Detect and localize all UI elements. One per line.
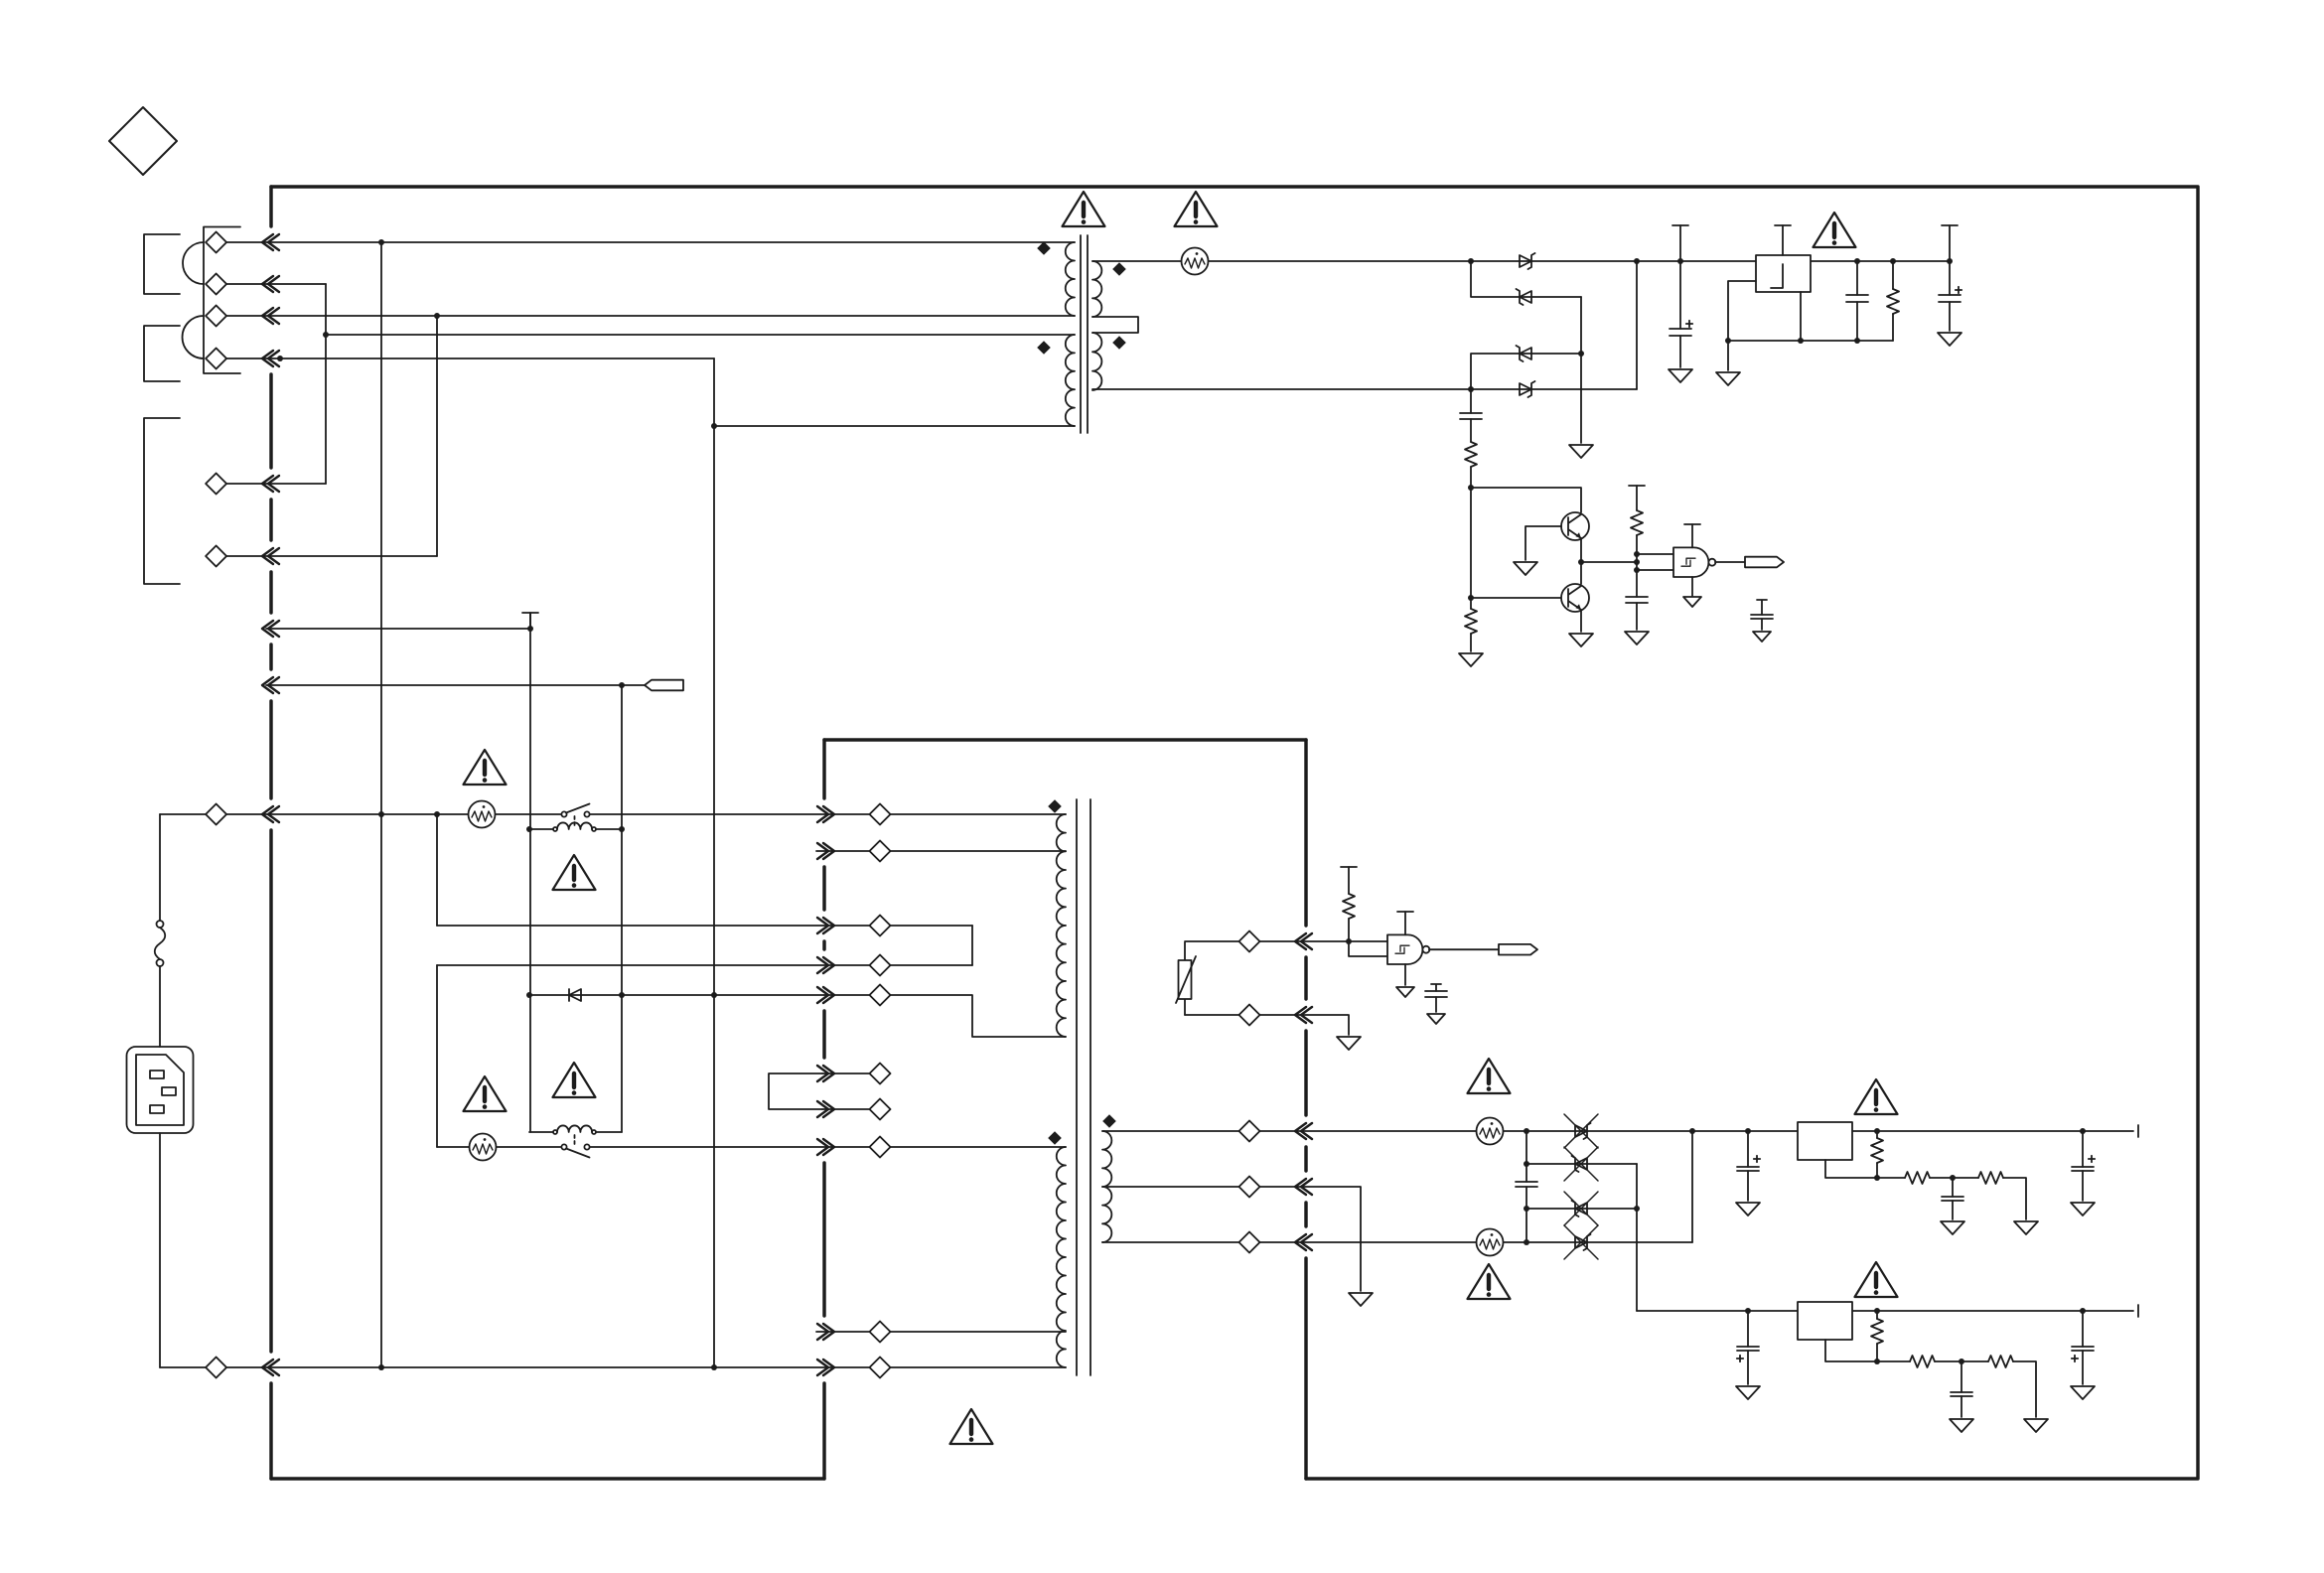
resistor R33 — [1978, 1172, 2003, 1184]
connector CN bracket 1 — [144, 234, 180, 294]
pin 5 — [206, 474, 226, 495]
connector CN bracket 2 — [144, 326, 180, 381]
pin sec 1139 — [1239, 1121, 1260, 1142]
phase dot T1 S2 — [1112, 336, 1126, 350]
warning triangle regulator — [1814, 213, 1856, 247]
ground — [1459, 653, 1483, 666]
ground — [1950, 1419, 1973, 1432]
resistor R36 — [1988, 1356, 2013, 1367]
warning triangle RY2 — [553, 1063, 596, 1097]
IC1 top pin tick — [1782, 225, 1784, 255]
thermistor TH5 — [1477, 1229, 1504, 1256]
wire long vertical N bus — [380, 242, 382, 1367]
wire diode row 2 — [1526, 1163, 1637, 1165]
cap C35 — [1747, 1311, 1749, 1347]
wire diode4 to top rail — [1691, 1131, 1693, 1242]
wire Q2 base row — [1471, 597, 1562, 599]
wire Q1 emitter to Q2 collector — [1580, 538, 1582, 584]
wire row8 — [266, 684, 645, 686]
chevron row1 — [262, 234, 279, 250]
zener rectifier D13 — [1517, 346, 1532, 361]
jumper loop outside box — [769, 1073, 822, 1109]
chevron live row — [262, 806, 279, 822]
IC1 gnd pin left — [1728, 281, 1756, 370]
ground — [1669, 369, 1692, 382]
wire AC inlet neutral drop — [159, 1133, 161, 1367]
gate input B jog — [1349, 941, 1387, 956]
crossed diode DX2 — [1572, 1156, 1588, 1172]
chevron row7 — [262, 621, 279, 637]
pin 4 — [206, 349, 226, 369]
pull-up resistor R13 — [1636, 486, 1638, 510]
wire row 1002 inside box — [824, 995, 1066, 1037]
transformer T2 secondary winding — [1102, 1131, 1111, 1242]
wire stack right vertical — [1636, 1164, 1638, 1311]
jumper arc pins 3-4 — [183, 316, 204, 358]
isolation boundary outer box (thick) — [271, 187, 2198, 1479]
junction dots bottom right — [1524, 1128, 1529, 1134]
chevron row6 — [262, 548, 279, 564]
wire row2 pin2 — [226, 283, 326, 285]
phase dot T2 S — [1102, 1114, 1116, 1128]
power tick unreg rail — [1679, 225, 1681, 261]
pin box tap1 — [870, 841, 891, 862]
resistor R14 — [1892, 261, 1894, 289]
wire vertical relay1 left — [529, 613, 531, 1132]
wire D12 row — [1471, 261, 1581, 297]
chevron box row 972 — [817, 957, 834, 973]
wire diode row 3 — [1526, 1208, 1637, 1210]
wire T2 secondary mid tap — [1102, 1187, 1361, 1291]
wire row6 pin6 — [226, 555, 437, 557]
gate input stubs — [1637, 554, 1673, 570]
wire tap row T2 primary1 — [816, 850, 1066, 852]
chevron box neutral — [817, 1359, 834, 1375]
pin 6 — [206, 546, 226, 567]
transformer T1 primary winding 2 — [1066, 335, 1075, 426]
warning triangle top 2 — [1175, 192, 1218, 226]
zener rectifier D14 — [1520, 381, 1535, 397]
end bar lower rail — [2137, 1305, 2139, 1317]
nand gate U2 — [1673, 547, 1715, 577]
snubber chain cap C12 — [1470, 389, 1472, 413]
chevron sec row 1251 — [1295, 1234, 1312, 1250]
warning triangle bottom center — [950, 1409, 993, 1444]
ground — [1938, 333, 1961, 346]
IC2 bottom pin — [1825, 1160, 1877, 1178]
wire T2 secondary bottom row — [1102, 1241, 1692, 1243]
warning triangle IC3 — [1855, 1262, 1898, 1297]
pin 2 — [206, 274, 226, 295]
wire loop rows to pins — [822, 1073, 884, 1109]
wire row into box lower — [437, 964, 972, 966]
transformer T1 secondary winding 2 — [1092, 333, 1101, 390]
wire row into box upper — [437, 925, 972, 927]
thermistor TH2 — [470, 1134, 497, 1161]
wire row4 pin4 — [226, 357, 714, 359]
wire node to gate — [1581, 561, 1637, 563]
sheet logo diamond — [109, 107, 177, 175]
zener rectifier D11 — [1520, 253, 1535, 269]
regulator IC3 — [1798, 1302, 1852, 1340]
wire lower rail — [1637, 1310, 2133, 1312]
cap C36 — [1961, 1361, 1962, 1392]
net flag U1 out — [1499, 944, 1537, 955]
zener rectifier D12 — [1517, 289, 1532, 305]
IC1 bottom pin — [1800, 292, 1802, 341]
U2 output wire — [1715, 561, 1745, 563]
feedback resistor R34 — [1876, 1311, 1878, 1319]
switch S1 — [561, 804, 589, 817]
wire D13 row — [1471, 354, 1581, 389]
wire switched live row2 — [437, 1146, 1066, 1148]
transformer T1 secondary jog — [1092, 317, 1138, 333]
phase dot T2 P2 — [1048, 1131, 1062, 1145]
transformer T2 primary winding 2 — [1057, 1147, 1066, 1367]
regulator IC2 — [1798, 1122, 1852, 1160]
wire row5 pin5 — [226, 483, 326, 485]
chevron sec row 948 — [1295, 933, 1312, 949]
U2 vcc pin — [1691, 524, 1693, 547]
switch S2 — [561, 1144, 589, 1157]
connector body line — [204, 227, 240, 374]
cap C31 — [1516, 1182, 1537, 1187]
warning triangle TH1 — [464, 750, 507, 785]
connector CN bracket 3 — [144, 418, 180, 584]
wire AC inlet live drop — [159, 814, 161, 1047]
chevron box switched live — [817, 1139, 834, 1155]
wire AC live row — [160, 813, 1066, 815]
inner primary box right edge segments — [1304, 740, 1307, 1479]
wire to ground from D12/D13 — [1580, 354, 1582, 443]
pin box tap2 — [870, 1322, 891, 1343]
ground — [1569, 445, 1593, 458]
wire T1 secondary bottom row — [1092, 388, 1637, 390]
wire vertical live branch upper — [436, 814, 438, 926]
ground — [2024, 1419, 2048, 1432]
fuse F1 — [157, 921, 164, 928]
phase dot T1 P1 — [1037, 241, 1051, 255]
phase dot T2 P1 — [1048, 799, 1062, 813]
warning triangle IC2 — [1855, 1079, 1898, 1114]
varistor VR1 — [1184, 942, 1186, 1015]
thermistor TH1 — [469, 801, 496, 828]
chevron row8 — [262, 677, 279, 693]
wire T2 secondary top row — [1102, 1130, 2133, 1132]
output cap C16 — [1949, 225, 1951, 261]
chevron box row 1002 — [817, 987, 834, 1003]
transformer T1 secondary winding 1 — [1092, 261, 1101, 317]
wire row T1 primary2 bottom — [714, 425, 1075, 427]
ground — [2071, 1203, 2095, 1215]
end bar top rail — [2137, 1125, 2139, 1137]
wire tap row T2 primary2 — [816, 1331, 1066, 1333]
IC1 adj row — [1728, 340, 1893, 342]
ground — [1337, 1037, 1361, 1050]
wire relay diode row — [529, 994, 824, 996]
inner primary box left edge segments — [822, 740, 825, 1479]
U1 gnd pin — [1404, 964, 1406, 985]
pin sec 1022 — [1239, 1005, 1260, 1026]
net flag U2 out — [1745, 557, 1784, 568]
wire vertical live branch lower — [436, 965, 438, 1147]
wire vertical pin2-pin5 — [325, 284, 327, 484]
U1 output wire — [1429, 948, 1499, 950]
ground — [1427, 1014, 1445, 1024]
regulator IC1 — [1756, 255, 1811, 292]
chevron box loop a — [817, 1066, 834, 1081]
crossed diode DX3 — [1572, 1201, 1588, 1216]
chevron neutral row — [262, 1359, 279, 1375]
cap C32 — [1747, 1131, 1749, 1167]
ground — [1941, 1221, 1964, 1234]
wire T1 secondary top row — [1092, 260, 1950, 262]
jumper arc pins 1-2 — [183, 242, 204, 284]
bypass cap C21 — [1431, 984, 1441, 991]
pin box loop b — [870, 1099, 891, 1120]
chevron sec row 1139 — [1295, 1123, 1312, 1139]
diode D1 relay damper — [569, 989, 581, 1001]
pin box row 972 — [870, 955, 891, 976]
isolation boundary left edge segments — [269, 187, 272, 1479]
pull-up resistor R21 — [1348, 867, 1350, 894]
U2 gnd pin — [1691, 577, 1693, 596]
cap C15 — [1856, 261, 1858, 295]
resistor R12 — [1470, 598, 1472, 609]
wire Q1 base to ground — [1525, 526, 1561, 560]
warning triangle RY1 — [553, 855, 596, 890]
chevron box loop b — [817, 1101, 834, 1117]
cap C34 — [2082, 1131, 2084, 1167]
warning triangle TH2 — [464, 1076, 507, 1111]
wire row3 pin3 to T1 primary bottom — [226, 315, 1075, 317]
transistor Q2 — [1561, 584, 1589, 612]
chevron sec row 1195 — [1295, 1179, 1312, 1195]
ground — [2071, 1386, 2095, 1399]
thermistor TH4 — [1477, 1118, 1504, 1145]
chevron sec row 1022 — [1295, 1007, 1312, 1023]
junction dots top right — [1468, 258, 1474, 264]
wire Q1 collector branch — [1471, 488, 1581, 512]
phase dot T1 P2 — [1037, 341, 1051, 355]
pin box loop a — [870, 1064, 891, 1084]
feedback resistor R31 — [1876, 1131, 1878, 1138]
resistor R35 — [1877, 1360, 1910, 1362]
cap C33 — [1952, 1178, 1954, 1197]
wire vertical relay1 right — [621, 685, 623, 1132]
net flag row8 — [645, 680, 683, 691]
ground — [1736, 1203, 1760, 1215]
wire row T1 primary2 top — [326, 334, 1075, 336]
transformer T2 core — [1077, 799, 1090, 1375]
warning triangle TH5 — [1468, 1264, 1511, 1299]
pin sec 1251 — [1239, 1232, 1260, 1253]
resistor R32 — [1877, 1177, 1905, 1179]
pin 1 — [206, 232, 226, 253]
phase dot T1 S1 — [1112, 262, 1126, 276]
thermistor TH3 — [1182, 248, 1209, 275]
ground — [1753, 632, 1771, 642]
chevron row3 — [262, 308, 279, 324]
pin box neutral — [870, 1358, 891, 1378]
transformer T1 primary winding 1 — [1066, 242, 1075, 316]
wire AC neutral row — [160, 1366, 1066, 1368]
wire vertical row3 to pin6 — [436, 316, 438, 556]
inner primary box top edge — [824, 738, 1306, 741]
pin box row 1002 — [870, 985, 891, 1006]
transformer T1 core — [1081, 235, 1088, 433]
chevron box live — [817, 806, 834, 822]
surge diode stack vertical — [1525, 1131, 1527, 1242]
ground — [1736, 1386, 1760, 1399]
pin box live — [870, 804, 891, 825]
snubber resistor R11 — [1465, 442, 1477, 467]
pin live — [206, 804, 226, 825]
warning triangle top 1 — [1063, 192, 1105, 226]
warning triangle TH4 — [1468, 1059, 1511, 1093]
pin sec 1195 — [1239, 1177, 1260, 1198]
chevron row2 — [262, 276, 279, 292]
chevron row5 — [262, 476, 279, 492]
nand gate U1 — [1387, 934, 1429, 964]
ground — [2014, 1221, 2038, 1234]
ground — [1625, 632, 1649, 644]
filter cap C11 — [1679, 261, 1681, 329]
junction dots left zone — [378, 239, 384, 245]
ground — [1349, 1293, 1373, 1306]
relay coil RY1 — [529, 828, 622, 830]
cap C37 — [2082, 1311, 2084, 1347]
transistor Q1 — [1561, 512, 1589, 540]
pin 3 — [206, 306, 226, 327]
wire row7 — [266, 628, 530, 630]
U1 vcc pin — [1404, 912, 1406, 934]
crossed diode DX1 — [1575, 1123, 1591, 1139]
crossed diode DX4 — [1575, 1234, 1591, 1250]
wire row1 pin1 to T1 primary top — [226, 241, 1075, 243]
wire varistor bottom row — [1185, 1015, 1349, 1035]
chevron row4 — [262, 351, 279, 366]
transformer T2 primary winding 1 — [1057, 814, 1066, 1037]
pin neutral — [206, 1358, 226, 1378]
pin box row 932 — [870, 916, 891, 936]
wire jumper inside box — [971, 926, 973, 965]
chevron box tap2 — [817, 1324, 834, 1340]
wire D12-D13 cathode join — [1580, 297, 1582, 354]
chevron box row 932 — [817, 918, 834, 933]
IC3 bottom pin — [1825, 1340, 1877, 1361]
AC inlet connector — [127, 1047, 194, 1133]
relay coil RY2 — [529, 1131, 622, 1133]
cap C13 — [1626, 597, 1648, 603]
wire varistor top row — [1185, 940, 1387, 942]
wire vertical row4 bus — [713, 358, 715, 1367]
chevron box tap1 — [817, 843, 834, 859]
pin box switched live — [870, 1137, 891, 1158]
wire Q2 emitter to ground — [1580, 610, 1582, 632]
wire rectifier output up — [1636, 261, 1638, 389]
pin sec 948 — [1239, 931, 1260, 952]
terminal stub row7 — [522, 613, 538, 629]
bypass cap C14 — [1757, 600, 1767, 615]
